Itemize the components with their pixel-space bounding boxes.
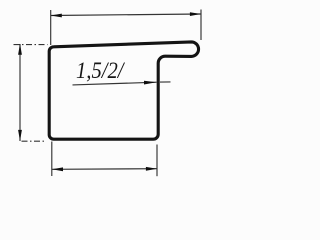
svg-text:1,5/2/: 1,5/2/ [76, 58, 126, 84]
